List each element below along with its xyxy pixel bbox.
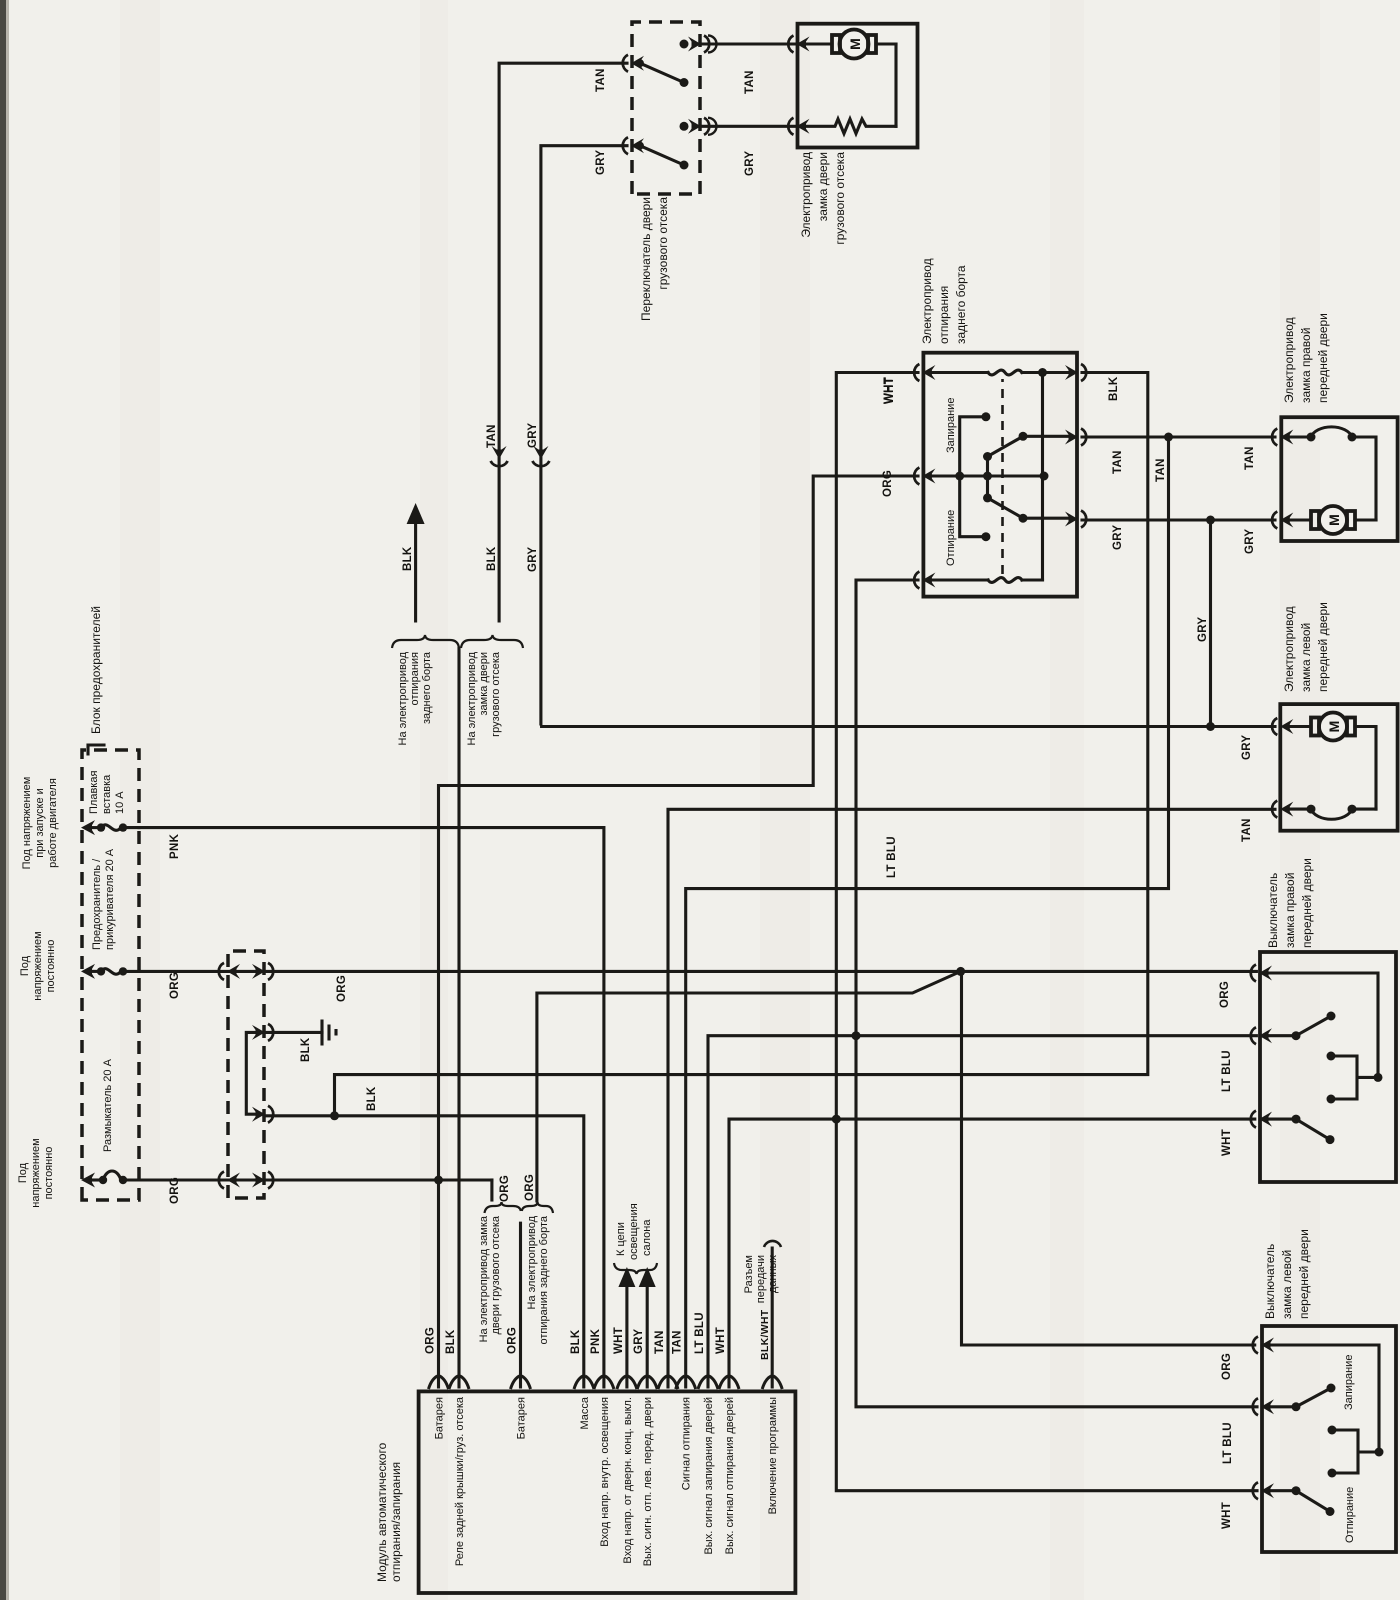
circuit breaker Размыкатель 20 А (81, 1058, 139, 1187)
svg-text:отпирания: отпирания (409, 652, 421, 705)
svg-text:Вход напр. внутр. освещения: Вход напр. внутр. освещения (599, 1397, 611, 1547)
entry WHT (914, 364, 935, 381)
svg-text:Батарея: Батарея (434, 1397, 446, 1439)
node GRY right (1206, 516, 1215, 525)
right door switch box (1260, 952, 1396, 1182)
label Выключатель замка правой передней двери (1266, 858, 1314, 948)
labels lower brace group 1 (478, 1215, 502, 1342)
svg-text:TAN: TAN (1112, 450, 1124, 474)
svg-text:TAN: TAN (595, 68, 607, 92)
connector pin on ORG breaker (bottom) (252, 1172, 273, 1189)
svg-text:Предохранитель /: Предохранитель / (91, 858, 103, 950)
entry TAN (1272, 429, 1293, 446)
svg-text:передачи: передачи (755, 1255, 767, 1303)
node GRY left (1206, 722, 1215, 731)
entry LT BLU (1253, 1398, 1274, 1415)
node TAN (1164, 433, 1173, 442)
label Электропривод замка двери грузового отсека (799, 152, 847, 245)
switch arms (983, 432, 1028, 523)
brace pair lower (cargo lock / tailgate release feeds) (485, 1202, 554, 1213)
svg-text:Выключатель: Выключатель (1263, 1244, 1277, 1319)
motor M right (1288, 506, 1376, 534)
svg-text:ORG: ORG (524, 1174, 536, 1201)
svg-text:Вых. сигнал отпирания дверей: Вых. сигнал отпирания дверей (724, 1397, 736, 1554)
svg-text:TAN: TAN (1244, 446, 1256, 470)
fixed contacts bar (960, 412, 991, 541)
svg-text:грузового отсека: грузового отсека (833, 152, 847, 245)
cargo door switch dashed box (632, 22, 700, 194)
wire internal loop (894, 44, 897, 126)
connector internal bus + BLK stubs (246, 1024, 273, 1123)
svg-text:GRY: GRY (527, 423, 539, 448)
svg-text:замка левой: замка левой (1280, 1250, 1294, 1319)
svg-text:BLK: BLK (366, 1086, 378, 1111)
cargo lock actuator box (798, 24, 918, 148)
motor M left (1287, 713, 1376, 810)
wire TAN/BLK to cargo door switch (499, 63, 627, 621)
connector pin on ORG (top) (219, 963, 240, 980)
svg-text:LT BLU: LT BLU (1221, 1050, 1233, 1092)
node (1374, 1073, 1383, 1082)
resistor (805, 119, 896, 134)
labels upper brace group 2 (466, 651, 502, 745)
label: Блок предохранителей (88, 606, 104, 754)
svg-text:заднего борта: заднего борта (954, 265, 968, 344)
svg-text:WHT: WHT (1221, 1502, 1233, 1529)
svg-text:GRY: GRY (1241, 735, 1253, 760)
inline connector on GRY (532, 446, 549, 466)
svg-text:передней двери: передней двери (1316, 313, 1330, 403)
connector dashed box (228, 951, 264, 1198)
wire ORG branch to tailgate release (underlined ORG) (537, 971, 961, 1201)
svg-text:передней двери: передней двери (1297, 1229, 1311, 1319)
svg-text:ORG: ORG (499, 1175, 511, 1202)
arrowhead WHT (618, 1267, 635, 1287)
label Переключатель двери грузового отсека (639, 197, 670, 321)
dashed mechanical link (1001, 379, 1004, 574)
arrowhead GRY (639, 1267, 656, 1287)
wire ORG pin3 to brace 2 (519, 1223, 522, 1387)
svg-text:TAN: TAN (672, 1330, 684, 1354)
fixed contacts left switch (1328, 1426, 1380, 1478)
svg-text:передней двери: передней двери (1316, 602, 1330, 692)
svg-text:M: M (1326, 514, 1342, 526)
svg-text:Электропривод: Электропривод (920, 258, 934, 344)
svg-text:LT BLU: LT BLU (1222, 1422, 1234, 1464)
wire TAN main: tailgate actuator to right door lock actuator (1082, 435, 1275, 438)
entry TAN (1272, 801, 1293, 818)
svg-text:BLK: BLK (300, 1037, 312, 1062)
labels upper brace group 1 (397, 651, 433, 745)
svg-text:Реле задней крышки/груз. отсек: Реле задней крышки/груз. отсека (454, 1396, 466, 1566)
wire GRY pin7 arrow to interior lighting (646, 1280, 649, 1387)
svg-text:LT BLU: LT BLU (886, 836, 898, 878)
bracket data link (764, 1241, 781, 1247)
wire GRY cross branch (1209, 520, 1212, 727)
node ORG jog (956, 967, 965, 976)
svg-text:ORG: ORG (1219, 981, 1231, 1008)
svg-text:10 А: 10 А (114, 791, 126, 814)
entry LT BLU (914, 572, 935, 589)
svg-text:Электропривод: Электропривод (799, 152, 813, 238)
module Модуль автоматического отпирания/запирания (419, 1391, 796, 1593)
wire ORG branch to left door switch (962, 971, 1255, 1345)
svg-text:LT BLU: LT BLU (694, 1312, 706, 1354)
svg-text:Запирание: Запирание (1343, 1355, 1355, 1410)
svg-text:BLK: BLK (1108, 376, 1120, 401)
svg-text:Сигнал отпирания: Сигнал отпирания (681, 1397, 693, 1490)
svg-text:BLK: BLK (402, 546, 414, 571)
svg-text:данных: данных (767, 1255, 779, 1294)
svg-text:Включение программы: Включение программы (767, 1397, 779, 1515)
wire GRY inside (1023, 517, 1071, 520)
wire BLK module pin4 (264, 1116, 584, 1387)
entry GRY (788, 118, 809, 135)
svg-text:замка правой: замка правой (1299, 328, 1313, 403)
wire coil common (1041, 373, 1044, 581)
svg-text:ORG: ORG (1221, 1353, 1233, 1380)
wire GRY main: tailgate actuator to right door lock actuator (1082, 518, 1275, 521)
svg-text:замка левой: замка левой (1299, 623, 1313, 692)
contact GRY in (623, 137, 644, 154)
wire LT BLU module pin10 (708, 1036, 1256, 1387)
left door switch box (1262, 1326, 1396, 1552)
unlock link arc (1287, 805, 1376, 820)
wire TAN module pin8 to left door lock actuator (668, 809, 1275, 1387)
svg-text:Электропривод: Электропривод (1282, 606, 1296, 692)
svg-text:GRY: GRY (1112, 525, 1124, 550)
svg-text:Модуль автоматического: Модуль автоматического (375, 1442, 389, 1582)
label Электропривод замка правой передней двери (1282, 313, 1330, 403)
wire ORG inside (1266, 973, 1378, 1077)
label Электропривод замка левой передней двери (1282, 602, 1330, 692)
entry GRY (1272, 718, 1293, 735)
svg-text:TAN: TAN (744, 70, 756, 94)
connector pin on ORG (bottom) (252, 963, 273, 980)
wire GRY to cargo door switch (541, 146, 627, 724)
exit TAN (1065, 429, 1086, 446)
wire BLK/WHT pin12 to data link connector (771, 1248, 774, 1387)
wire WHT module pin11 (729, 1119, 1255, 1387)
svg-text:GRY: GRY (633, 1329, 645, 1354)
svg-text:грузового отсека: грузового отсека (490, 651, 502, 737)
node WHT (832, 1115, 841, 1124)
svg-text:двери грузового отсека: двери грузового отсека (490, 1215, 502, 1334)
feed label top (fuse 10A) (21, 777, 59, 870)
svg-text:Электропривод: Электропривод (1282, 317, 1296, 403)
entry WHT (1253, 1482, 1274, 1499)
arm WHT (unlock) (1268, 1486, 1335, 1516)
wire GRY: cargo line down to left door lock actuator (542, 725, 1275, 728)
svg-text:На электропривод: На электропривод (397, 651, 409, 745)
fuse F1 Плавкая вставка 10 А (81, 771, 139, 836)
svg-text:PNK: PNK (169, 833, 181, 859)
svg-text:отпирания/запирания: отпирания/запирания (389, 1462, 403, 1582)
svg-text:GRY: GRY (1244, 529, 1256, 554)
svg-text:BLK: BLK (486, 546, 498, 571)
right door lock actuator box (1281, 417, 1397, 541)
node BLK (330, 1111, 339, 1120)
contact TAN out (680, 36, 710, 53)
wire WHT pin6 arrow to interior lighting (625, 1280, 628, 1387)
wire TAN switch to cargo motor (700, 36, 798, 53)
wire ORG inside (1268, 1345, 1379, 1452)
feed label top (fuse 20A) (19, 931, 57, 1000)
svg-text:Запирание: Запирание (945, 398, 957, 453)
label Электропривод отпирания заднего борта (920, 258, 968, 344)
svg-text:Под: Под (19, 955, 31, 976)
wire TAN module pin9 branch (686, 437, 1169, 1387)
label Выключатель замка левой передней двери (1263, 1229, 1311, 1319)
svg-text:GRY: GRY (1197, 617, 1209, 642)
svg-text:Масса: Масса (579, 1396, 591, 1429)
arm LT BLU (lock) (1266, 1012, 1336, 1041)
left door lock actuator box (1280, 704, 1397, 831)
switch arm TAN (636, 59, 689, 87)
svg-text:Размыкатель 20 А: Размыкатель 20 А (102, 1058, 114, 1152)
svg-text:Отпирание: Отпирание (1344, 1487, 1356, 1543)
svg-text:TAN: TAN (654, 1330, 666, 1354)
svg-text:замка двери: замка двери (816, 152, 830, 221)
wire GRY switch to cargo motor (700, 118, 798, 135)
svg-text:К цепи: К цепи (615, 1222, 627, 1256)
svg-text:Вход напр. от дверн. конц. вык: Вход напр. от дверн. конц. выкл. (622, 1397, 634, 1564)
svg-text:при запуске и: при запуске и (34, 788, 46, 858)
wire LT BLU main: tailgate actuator to left door switch (856, 580, 1257, 1407)
wire ORG: fuse F2 through connector to right door switch (139, 970, 1256, 973)
svg-text:TAN: TAN (486, 424, 498, 448)
svg-text:салона: салона (641, 1219, 653, 1256)
svg-text:заднего борта: заднего борта (421, 651, 433, 724)
svg-text:ORG: ORG (507, 1327, 519, 1354)
svg-text:Отпирание: Отпирание (945, 510, 957, 566)
node: pin1 taps battery ORG (434, 1176, 443, 1185)
node (1375, 1448, 1384, 1457)
entry LT BLU (1251, 1027, 1272, 1044)
module wire colour labels (425, 1309, 772, 1360)
svg-text:M: M (847, 38, 863, 50)
exit GRY (1065, 511, 1086, 528)
svg-text:Блок предохранителей: Блок предохранителей (89, 606, 103, 734)
label Разъем передачи данных (743, 1255, 779, 1304)
wire ORG pin1 to tailgate actuator ORG terminal (439, 476, 919, 1387)
svg-text:Переключатель двери: Переключатель двери (639, 197, 653, 321)
arm LT BLU (lock) (1268, 1384, 1336, 1412)
module pin labels (434, 1396, 780, 1566)
svg-text:На электропривод: На электропривод (466, 651, 478, 745)
svg-text:Батарея: Батарея (516, 1397, 528, 1439)
svg-text:замка правой: замка правой (1283, 873, 1297, 948)
entry ORG (1253, 1337, 1274, 1354)
inline connector on TAN/BLK (491, 446, 508, 466)
fixed contacts right switch (1327, 1052, 1379, 1104)
arm WHT (unlock) (1266, 1115, 1335, 1145)
lock link arc (1288, 427, 1376, 520)
svg-text:GRY: GRY (595, 150, 607, 175)
svg-text:ORG: ORG (169, 972, 181, 999)
svg-text:M: M (1326, 721, 1342, 733)
labels lower brace group 2 (526, 1215, 550, 1344)
entry ORG (1251, 965, 1272, 982)
svg-text:Разъем: Разъем (743, 1255, 755, 1293)
wire ORG stub to brace 1 (490, 1180, 493, 1200)
wire TAN inside (1023, 435, 1071, 438)
svg-text:передней двери: передней двери (1300, 858, 1314, 948)
brace К цепи освещения салона (614, 1263, 657, 1274)
wire ORG centre feed (930, 472, 1049, 481)
wire BLK module pin2 to brace joint (457, 648, 460, 1387)
lock coil (930, 368, 1071, 377)
svg-text:На электропривод: На электропривод (526, 1215, 538, 1309)
tailgate release actuator box (923, 353, 1077, 597)
svg-text:отпирания: отпирания (937, 286, 951, 344)
svg-text:На электропривод замка: На электропривод замка (478, 1215, 490, 1342)
ground (322, 1021, 336, 1044)
brace pair upper (off-page to tailgate release / cargo lock) (392, 635, 523, 648)
switch arm GRY (636, 142, 689, 170)
node LT BLU (852, 1031, 861, 1040)
fuse F2 Предохранитель / прикуриватель 20 А (81, 848, 139, 979)
svg-text:WHT: WHT (884, 377, 896, 404)
svg-text:BLK: BLK (570, 1329, 582, 1354)
svg-text:Вых. сигнал запирания дверей: Вых. сигнал запирания дверей (703, 1397, 715, 1555)
fuse block dashed box (82, 750, 139, 1200)
wire BLK branch to tailgate actuator BLK terminal (335, 373, 1148, 1116)
svg-text:напряжением: напряжением (32, 931, 44, 1000)
contact GRY out (680, 118, 710, 135)
svg-text:Выключатель: Выключатель (1266, 873, 1280, 948)
connector pin on ORG breaker (top) (219, 1172, 240, 1189)
svg-text:WHT: WHT (613, 1327, 625, 1354)
svg-text:Под напряжением: Под напряжением (21, 777, 33, 870)
label К цепи освещения салона (615, 1203, 653, 1260)
exit BLK (1065, 364, 1086, 381)
svg-text:BLK: BLK (445, 1329, 457, 1354)
svg-text:постоянно: постоянно (43, 1147, 55, 1200)
feed label top (breaker) (17, 1138, 55, 1207)
unlock coil (930, 578, 1043, 583)
svg-text:Плавкая: Плавкая (88, 771, 100, 814)
entry TAN (788, 36, 809, 53)
module pin bells (429, 1376, 783, 1389)
wire PNK: fuse F1 to module pin 5 (139, 828, 604, 1387)
entry WHT (1251, 1111, 1272, 1128)
entry GRY (1272, 512, 1293, 529)
wire WHT main: tailgate actuator to left door switch (836, 373, 1257, 1491)
svg-text:GRY: GRY (527, 547, 539, 572)
svg-text:Вых. сигн. отп. лев. перед. дв: Вых. сигн. отп. лев. перед. двери (642, 1397, 654, 1566)
svg-text:вставка: вставка (101, 774, 113, 814)
svg-text:Под: Под (17, 1162, 29, 1183)
svg-text:ORG: ORG (882, 470, 894, 497)
svg-text:GRY: GRY (744, 151, 756, 176)
contact TAN in (623, 55, 644, 72)
svg-text:WHT: WHT (715, 1327, 727, 1354)
wire ORG: breaker through connector to braces (139, 1178, 492, 1181)
svg-text:TAN: TAN (1155, 458, 1167, 482)
svg-text:напряжением: напряжением (30, 1138, 42, 1207)
svg-text:WHT: WHT (1221, 1129, 1233, 1156)
wire BLK arrow to tailgate release actuator (414, 520, 417, 621)
svg-text:грузового отсека: грузового отсека (656, 197, 670, 290)
entry ORG (914, 468, 935, 485)
svg-text:ORG: ORG (169, 1177, 181, 1204)
svg-text:PNK: PNK (590, 1328, 602, 1354)
svg-text:отпирания заднего борта: отпирания заднего борта (538, 1215, 550, 1344)
svg-text:ORG: ORG (425, 1327, 437, 1354)
svg-text:TAN: TAN (1241, 818, 1253, 842)
svg-text:BLK/WHT: BLK/WHT (759, 1309, 771, 1360)
wire BLK to ground (264, 1031, 322, 1034)
svg-text:работе двигателя: работе двигателя (47, 778, 59, 868)
svg-text:замка двери: замка двери (478, 652, 490, 715)
svg-text:ORG: ORG (336, 975, 348, 1002)
svg-text:прикуривателя 20 А: прикуривателя 20 А (104, 848, 116, 950)
svg-text:освещения: освещения (628, 1203, 640, 1260)
arrowhead BLK (407, 503, 425, 524)
motor M cargo (805, 30, 896, 59)
svg-text:постоянно: постоянно (45, 940, 57, 993)
